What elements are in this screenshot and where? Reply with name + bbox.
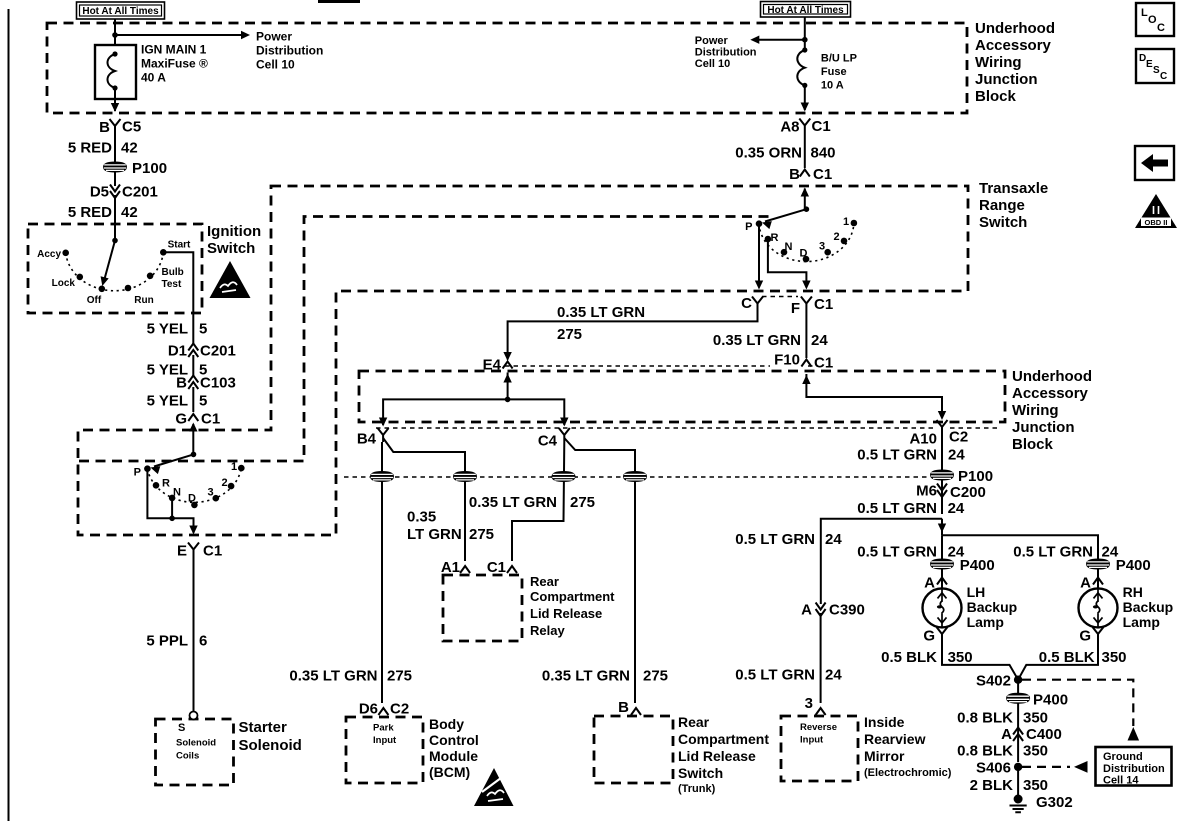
connector A C390 (816, 603, 826, 617)
connector A (LH lamp) (941, 569, 943, 589)
connector line C1 between C and F (762, 296, 798, 298)
svg-text:275: 275 (557, 326, 582, 343)
svg-text:F10: F10 (774, 352, 800, 369)
connector A1 (relay) (460, 566, 470, 573)
svg-text:C1: C1 (813, 166, 832, 183)
node at power distribution tap (right) (802, 37, 808, 43)
ESD triangle (BCM) (474, 768, 514, 806)
svg-text:Run: Run (134, 295, 153, 306)
connector line through B4 C4 A10 (376, 427, 998, 429)
svg-text:S: S (1153, 65, 1160, 76)
svg-text:Compartment: Compartment (678, 731, 769, 747)
connector C (752, 297, 763, 311)
connector line E4-F10 (505, 365, 818, 367)
dashed reference S402 to ground cell (1022, 680, 1133, 726)
svg-text:42: 42 (121, 204, 138, 221)
contact Start (160, 249, 167, 256)
svg-text:24: 24 (825, 531, 842, 548)
svg-text:Wiring: Wiring (1012, 402, 1059, 419)
svg-text:B: B (618, 699, 629, 716)
svg-text:Ground: Ground (1103, 751, 1143, 763)
svg-text:C1: C1 (203, 543, 222, 560)
svg-text:5 RED: 5 RED (68, 140, 112, 157)
svg-text:Mirror: Mirror (864, 748, 905, 764)
svg-text:Accy: Accy (37, 249, 61, 260)
svg-text:P: P (134, 467, 141, 479)
svg-text:0.5 LT GRN: 0.5 LT GRN (857, 500, 937, 517)
wire G RH to S402 (1018, 641, 1098, 680)
svg-text:Hot At All Times: Hot At All Times (767, 5, 844, 16)
svg-text:24: 24 (948, 500, 965, 517)
connector B C103 (188, 376, 198, 390)
connector line through splices P100 (344, 476, 930, 478)
svg-text:Off: Off (87, 295, 102, 306)
connector E C1 (188, 543, 199, 557)
wire fuse to A8 C1 (804, 85, 806, 110)
node at power distribution tap (112, 32, 118, 38)
lower switch contact arc (147, 468, 241, 502)
splice P100 (right) (931, 470, 954, 480)
dashed reference S406 to ground cell (1022, 766, 1070, 768)
splice P400 (LH) (931, 559, 954, 569)
svg-text:Backup: Backup (1123, 599, 1174, 615)
wire into lower transaxle switch (192, 424, 194, 454)
svg-text:C390: C390 (829, 602, 865, 619)
contact N (upper) (781, 249, 788, 256)
svg-text:B4: B4 (357, 431, 377, 448)
svg-text:Underhood: Underhood (1012, 368, 1092, 385)
svg-text:A8: A8 (780, 119, 799, 136)
svg-text:Relay: Relay (530, 623, 565, 638)
svg-text:42: 42 (121, 140, 138, 157)
svg-text:Input: Input (373, 735, 397, 746)
connector M6 C200 (941, 480, 943, 514)
svg-text:Switch: Switch (678, 765, 723, 781)
wire to starter solenoid (193, 557, 195, 713)
svg-text:P400: P400 (960, 557, 995, 574)
contact D (upper) (803, 256, 810, 263)
wire M6 to lamp branch (941, 519, 943, 536)
splice P400 (RH) (1087, 559, 1110, 569)
svg-text:3: 3 (819, 241, 825, 253)
svg-text:Transaxle: Transaxle (979, 180, 1048, 197)
splice grommet 1 (371, 472, 394, 482)
svg-text:Range: Range (979, 197, 1025, 214)
hot at all times box (right) (761, 2, 851, 18)
svg-text:Hot At All Times: Hot At All Times (82, 6, 159, 17)
svg-text:Ignition: Ignition (207, 223, 261, 240)
svg-text:C1: C1 (814, 355, 833, 372)
splice P400 (ground) (1017, 680, 1019, 694)
wire start to ignition output (163, 252, 193, 344)
upper switch contact arc (759, 223, 854, 262)
svg-text:C400: C400 (1026, 726, 1062, 743)
starter solenoid terminal S (190, 712, 198, 720)
connector B C1 (transaxle) (800, 170, 810, 177)
wire F10 into junction block to A10 (806, 374, 942, 418)
body control module box (346, 717, 423, 783)
svg-text:Distribution: Distribution (1103, 763, 1165, 775)
svg-text:0.8 BLK: 0.8 BLK (957, 709, 1013, 726)
svg-text:C2: C2 (390, 701, 409, 718)
svg-text:Backup: Backup (967, 599, 1018, 615)
splice grommet 3 (552, 472, 575, 482)
svg-text:C5: C5 (122, 119, 141, 136)
svg-text:A10: A10 (909, 431, 937, 448)
wire label 5 YEL 5 (3) (192, 387, 194, 412)
svg-text:350: 350 (1102, 649, 1127, 666)
C4 wire down to relay C1 (512, 442, 564, 561)
splice grommet 2 (454, 472, 477, 482)
contact Lock (77, 274, 84, 281)
svg-text:0.35 ORN: 0.35 ORN (735, 145, 802, 162)
wire label 0.8 BLK 350 (1017, 703, 1019, 762)
svg-text:Module: Module (429, 748, 478, 764)
svg-text:Solenoid: Solenoid (239, 737, 302, 754)
svg-text:Lamp: Lamp (1123, 614, 1160, 630)
connector B (lid release switch) (631, 708, 641, 715)
svg-text:C201: C201 (200, 343, 236, 360)
svg-text:C103: C103 (200, 375, 236, 392)
svg-text:E: E (1146, 59, 1153, 70)
svg-text:Power: Power (256, 30, 292, 44)
rear compartment lid release switch box (594, 716, 673, 783)
svg-text:Block: Block (1012, 436, 1054, 453)
svg-text:IGN MAIN 1: IGN MAIN 1 (141, 43, 207, 57)
svg-text:10 A: 10 A (821, 80, 844, 92)
svg-text:275: 275 (570, 494, 595, 511)
svg-text:B: B (176, 375, 187, 392)
svg-text:5 YEL: 5 YEL (147, 321, 188, 338)
svg-text:2: 2 (222, 477, 228, 489)
wire R to F (768, 241, 807, 288)
svg-text:A: A (801, 602, 812, 619)
connector 3 (mirror) (816, 708, 826, 715)
ignition switch movable arm (112, 238, 118, 244)
wire branch to B4 and C4 (383, 399, 564, 425)
wire P to C (758, 226, 760, 288)
svg-text:O: O (1148, 14, 1157, 26)
wire LH lamp (941, 535, 943, 559)
svg-text:A1: A1 (441, 559, 460, 576)
svg-text:1: 1 (231, 461, 237, 473)
svg-text:Rearview: Rearview (864, 731, 926, 747)
svg-text:275: 275 (387, 668, 412, 685)
svg-text:C2: C2 (949, 429, 968, 446)
svg-text:350: 350 (1023, 709, 1048, 726)
svg-text:Bulb: Bulb (162, 267, 184, 278)
svg-text:G: G (175, 411, 187, 428)
ignition switch contact arc (66, 252, 164, 290)
svg-text:Switch: Switch (979, 214, 1027, 231)
wire A10 down to P100 (941, 432, 943, 470)
wire C to E4 (508, 311, 758, 360)
contact P (lower) (144, 465, 151, 472)
fuse IGN MAIN 1 MaxiFuse 40 A (95, 43, 208, 100)
svg-text:24: 24 (811, 332, 828, 349)
svg-text:LT GRN: LT GRN (407, 526, 462, 543)
svg-text:P100: P100 (132, 160, 167, 177)
svg-text:Control: Control (429, 732, 479, 748)
contact N (lower) (169, 495, 176, 502)
svg-text:Coils: Coils (176, 751, 199, 762)
svg-text:M6: M6 (916, 483, 937, 500)
svg-text:P100: P100 (958, 468, 993, 485)
contact P (upper) (756, 220, 763, 227)
fuse B/U LP 10 A (797, 47, 857, 91)
svg-text:C200: C200 (950, 484, 986, 501)
svg-text:5: 5 (199, 321, 207, 338)
svg-text:S406: S406 (976, 760, 1011, 777)
rear compartment lid release relay box (443, 575, 522, 641)
wire label 0.35 ORN 840 (804, 133, 806, 169)
svg-text:Inside: Inside (864, 714, 905, 730)
svg-text:0.5 LT GRN: 0.5 LT GRN (1013, 544, 1093, 561)
connector B4 (378, 428, 389, 442)
svg-text:L: L (1141, 7, 1148, 19)
svg-text:0.35: 0.35 (407, 509, 436, 526)
svg-text:A: A (1001, 726, 1012, 743)
svg-text:G: G (923, 628, 935, 645)
svg-text:2: 2 (834, 231, 840, 243)
C4 diagonal branch to switch B (564, 438, 635, 703)
svg-text:Switch: Switch (207, 240, 255, 257)
connector B C5 (110, 119, 121, 133)
svg-text:P400: P400 (1116, 557, 1151, 574)
svg-text:P400: P400 (1033, 692, 1068, 709)
lower transaxle switch arm (191, 452, 197, 458)
svg-text:B/U LP: B/U LP (821, 53, 857, 65)
node E4 branch (505, 397, 511, 403)
svg-text:5 YEL: 5 YEL (147, 393, 188, 410)
contact 3 (upper) (824, 249, 831, 256)
connector C1 (relay) (507, 566, 517, 573)
svg-text:C1: C1 (814, 296, 833, 313)
contact D (lower) (191, 502, 198, 509)
svg-text:Power: Power (695, 35, 729, 47)
svg-text:C1: C1 (487, 559, 506, 576)
svg-text:OBD II: OBD II (1145, 218, 1168, 227)
wire label 2 BLK 350 (1017, 767, 1019, 795)
underhood accessory wiring junction block (top) (47, 23, 967, 113)
svg-text:350: 350 (1023, 777, 1048, 794)
wire label 5 RED 42 (2) (114, 195, 116, 241)
wire label 5 YEL 5 (2) (192, 355, 194, 376)
svg-text:0.5 BLK: 0.5 BLK (881, 649, 937, 666)
contact 1 (lower) (238, 465, 245, 472)
svg-text:Accessory: Accessory (1012, 385, 1089, 402)
svg-text:6: 6 (199, 633, 207, 650)
transaxle range switch inner dashed line (79, 217, 770, 462)
scan artifact top (318, 0, 360, 3)
svg-text:C: C (1160, 71, 1167, 82)
svg-text:0.35 LT GRN: 0.35 LT GRN (542, 668, 630, 685)
svg-text:(BCM): (BCM) (429, 764, 470, 780)
wire F to F10 (805, 311, 807, 359)
contact Run (125, 285, 132, 292)
wire P and N to E output (147, 469, 193, 533)
splice S402 (1014, 676, 1022, 684)
connector D5 C201 (110, 185, 120, 199)
connector A (RH lamp) (1097, 569, 1099, 589)
svg-text:5: 5 (199, 393, 207, 410)
svg-text:0.5 BLK: 0.5 BLK (1039, 649, 1095, 666)
svg-text:MaxiFuse ®: MaxiFuse ® (141, 57, 208, 71)
svg-text:Lamp: Lamp (967, 614, 1004, 630)
splice grommet 4 (624, 472, 647, 482)
wire arrow to power distribution cell 10 (115, 34, 242, 36)
connector A10 C2 (937, 420, 948, 434)
wire from hot at all times (right) (804, 17, 806, 50)
svg-text:Park: Park (373, 723, 394, 734)
svg-text:840: 840 (811, 145, 836, 162)
connector F10 C1 (801, 360, 811, 367)
svg-text:Start: Start (168, 240, 191, 251)
svg-text:Accessory: Accessory (975, 37, 1052, 54)
contact 1 (upper) (851, 220, 858, 227)
svg-text:(Electrochromic): (Electrochromic) (864, 767, 952, 779)
DESC icon (1136, 49, 1174, 83)
OBD II icon (1135, 194, 1177, 228)
svg-text:G302: G302 (1036, 794, 1073, 811)
contact Bulb Test (147, 273, 154, 280)
svg-text:275: 275 (643, 668, 668, 685)
svg-text:Cell 10: Cell 10 (695, 58, 730, 70)
svg-text:Fuse: Fuse (821, 66, 847, 78)
svg-text:Rear: Rear (678, 714, 710, 730)
svg-text:B: B (99, 119, 110, 136)
svg-text:0.35 LT GRN: 0.35 LT GRN (713, 332, 801, 349)
svg-text:Reverse: Reverse (800, 722, 837, 733)
svg-text:C1: C1 (201, 411, 220, 428)
svg-text:F: F (791, 300, 800, 317)
splice P100 (114, 172, 116, 186)
svg-text:(Trunk): (Trunk) (678, 783, 716, 795)
underhood accessory wiring junction block (middle) (359, 371, 1005, 422)
svg-text:Cell 10: Cell 10 (256, 58, 295, 72)
LH backup lamp (923, 588, 962, 627)
contact R (upper) (765, 236, 772, 243)
B4 diagonal branch to relay A1 (383, 438, 465, 561)
contact R (lower) (153, 482, 160, 489)
svg-text:Junction: Junction (1012, 419, 1075, 436)
wire G LH to S402 (942, 641, 1018, 680)
back arrow icon (1135, 146, 1174, 180)
svg-text:C201: C201 (122, 184, 158, 201)
svg-text:Input: Input (800, 735, 824, 746)
svg-text:R: R (771, 232, 779, 244)
contact 3 (lower) (213, 495, 220, 502)
svg-text:Distribution: Distribution (256, 44, 323, 58)
svg-text:2 BLK: 2 BLK (970, 777, 1014, 794)
svg-text:Lock: Lock (52, 278, 76, 289)
svg-text:Wiring: Wiring (975, 54, 1022, 71)
contact 2 (lower) (228, 483, 235, 490)
svg-text:0.35 LT GRN: 0.35 LT GRN (469, 494, 557, 511)
svg-text:0.5 LT GRN: 0.5 LT GRN (735, 667, 815, 684)
wire label 5 RED 42 (114, 133, 116, 162)
svg-text:Underhood: Underhood (975, 20, 1055, 37)
contact Accy (62, 250, 69, 257)
svg-text:B: B (789, 166, 800, 183)
svg-text:Lid Release: Lid Release (678, 748, 756, 764)
svg-text:0.5 LT GRN: 0.5 LT GRN (857, 544, 937, 561)
svg-text:0.35 LT GRN: 0.35 LT GRN (557, 304, 645, 321)
svg-text:C1: C1 (812, 118, 831, 135)
svg-text:350: 350 (948, 649, 973, 666)
svg-text:0.35 LT GRN: 0.35 LT GRN (289, 668, 377, 685)
svg-text:D6: D6 (359, 701, 378, 718)
svg-text:0.5 LT GRN: 0.5 LT GRN (857, 447, 937, 464)
svg-text:Distribution: Distribution (695, 47, 757, 59)
svg-text:LH: LH (967, 584, 986, 600)
svg-text:350: 350 (1023, 743, 1048, 760)
contact 2 (upper) (841, 238, 848, 245)
svg-text:Junction: Junction (975, 71, 1038, 88)
ground G302 (1010, 795, 1027, 813)
svg-text:Body: Body (429, 716, 464, 732)
svg-text:0.5 LT GRN: 0.5 LT GRN (735, 531, 815, 548)
B4 wire down to BCM (381, 442, 383, 703)
connector A C400 (1013, 728, 1023, 742)
svg-text:C: C (741, 295, 752, 312)
svg-text:R: R (162, 478, 170, 490)
svg-text:S: S (178, 722, 185, 734)
RH backup lamp (1079, 588, 1118, 627)
svg-text:D: D (188, 493, 196, 505)
svg-text:A: A (924, 575, 935, 592)
branch to RH lamp (942, 535, 1098, 559)
svg-text:N: N (785, 241, 793, 253)
connector G (LH) (937, 627, 948, 641)
connector C4 (559, 428, 570, 442)
svg-text:S402: S402 (976, 673, 1011, 690)
svg-text:275: 275 (469, 526, 494, 543)
arrow to power distribution cell 10 (right) (758, 39, 805, 41)
hot at all times box (left) (77, 2, 165, 19)
connector D1 C201 (188, 344, 198, 358)
transaxle range switch outline polygon (78, 186, 968, 535)
svg-text:3: 3 (208, 487, 214, 499)
svg-text:24: 24 (948, 447, 965, 464)
inside rearview mirror box (781, 716, 858, 781)
connector G (RH) (1093, 627, 1104, 641)
svg-text:0.8 BLK: 0.8 BLK (957, 743, 1013, 760)
svg-text:E4: E4 (483, 357, 502, 374)
connector E4 (503, 362, 513, 369)
ignition switch box (28, 224, 202, 313)
page edge scan line (8, 9, 10, 821)
svg-text:P: P (745, 221, 752, 233)
svg-text:G: G (1079, 628, 1091, 645)
svg-text:D: D (800, 248, 808, 260)
svg-text:1: 1 (843, 216, 849, 228)
LOC icon (1136, 3, 1174, 36)
svg-text:3: 3 (805, 695, 813, 712)
splice S406 (1014, 763, 1022, 771)
svg-text:5 RED: 5 RED (68, 204, 112, 221)
svg-text:Test: Test (162, 279, 182, 290)
starter solenoid box (156, 719, 234, 785)
wire fuse to B C5 (114, 88, 116, 111)
svg-text:Solenoid: Solenoid (176, 738, 216, 749)
svg-text:A: A (1080, 575, 1091, 592)
svg-text:D1: D1 (168, 343, 187, 360)
svg-text:5 PPL: 5 PPL (146, 633, 188, 650)
wire from hot at all times to fuse (114, 19, 116, 53)
connector D6 C2 (BCM) (378, 708, 388, 715)
ground distribution cell 14 box (1096, 747, 1172, 787)
